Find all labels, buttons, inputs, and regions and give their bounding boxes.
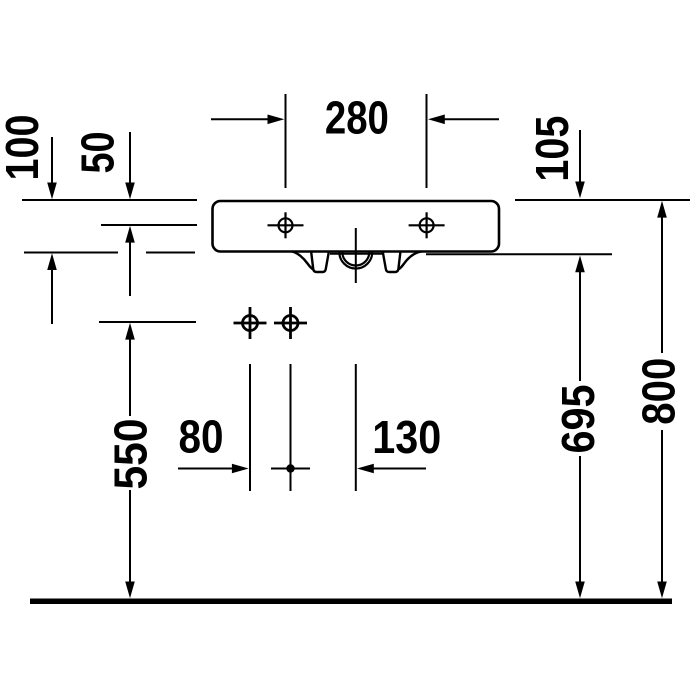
wall reference line top right: [515, 199, 690, 201]
dimension 130 arrow: [357, 464, 426, 474]
dimension 280 extension line left: [285, 94, 287, 188]
svg-text:695: 695: [552, 385, 604, 454]
svg-text:130: 130: [372, 411, 441, 463]
wall reference line top left: [22, 199, 197, 201]
svg-text:80: 80: [179, 410, 224, 462]
svg-text:280: 280: [325, 92, 389, 144]
dimension 550 upper arrow: [125, 323, 135, 416]
dimension 695 lower arrow: [575, 456, 585, 598]
dimension 800 upper arrow: [657, 201, 667, 353]
chained dimension dot: [271, 464, 310, 472]
dimension 50 upper arrow: [125, 132, 135, 199]
basin bottom reference line left: [24, 252, 195, 254]
dimension 100 lower arrow: [47, 253, 57, 324]
dimension 280 right arrow: [428, 115, 499, 125]
dimension 100 upper arrow: [47, 137, 57, 199]
drain centre line: [355, 228, 357, 283]
tap hole level reference line: [101, 224, 197, 226]
washbasin body: [213, 201, 500, 252]
svg-text:105: 105: [526, 116, 578, 182]
svg-text:50: 50: [72, 132, 124, 174]
svg-text:800: 800: [633, 358, 685, 425]
svg-text:100: 100: [0, 115, 48, 181]
dimension 105 arrow: [575, 130, 585, 198]
dimension 280 extension line right: [426, 94, 428, 188]
dimension 800 lower arrow: [657, 430, 667, 598]
dimension 50 lower arrow: [125, 226, 135, 296]
right tap hole mark: [409, 212, 445, 238]
siphon trap outline: [292, 252, 421, 273]
extension line below right fixing hole: [290, 364, 292, 491]
extension line below drain centre: [355, 364, 357, 491]
extension line below left fixing hole: [249, 364, 251, 491]
dimension 280 left arrow: [211, 115, 284, 125]
dimension 695 upper arrow: [575, 256, 585, 382]
basin underside reference line right: [426, 253, 612, 255]
svg-text:550: 550: [105, 419, 157, 490]
dimension 550 lower arrow: [125, 490, 135, 598]
fixing hole level reference line: [99, 321, 196, 323]
right fixing hole symbol: [274, 307, 307, 339]
floor line: [30, 599, 672, 605]
dimension 80 arrow: [178, 464, 249, 474]
drain crosshair horizontal: [330, 253, 382, 255]
left tap hole mark: [268, 212, 304, 238]
drain bowl arcs: [339, 252, 372, 269]
left fixing hole symbol: [234, 307, 267, 339]
